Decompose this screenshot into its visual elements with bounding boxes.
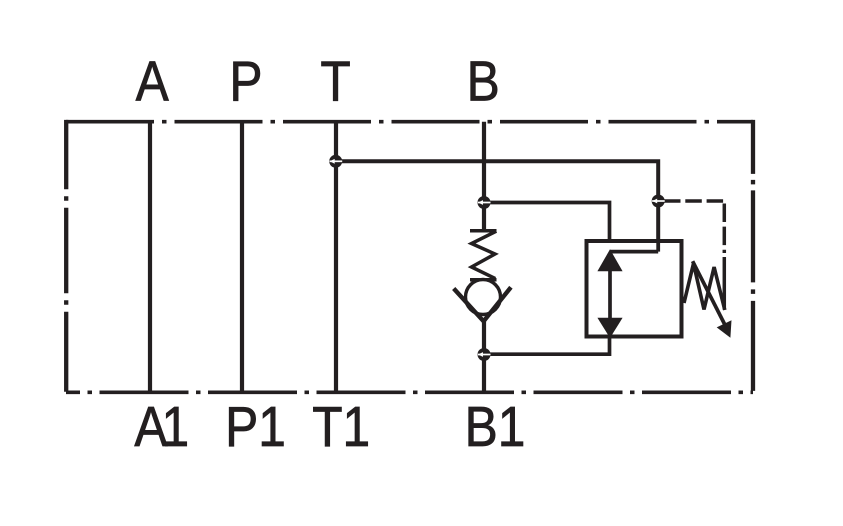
junction node top of compensator branch <box>652 195 665 208</box>
enclosure boundary (dash-dot subplate box) <box>66 120 753 392</box>
boundary top edge <box>66 120 753 124</box>
wire: compensator bottom exit to B node <box>484 335 610 355</box>
port line A-A1 <box>148 122 152 393</box>
svg-text:A1: A1 <box>134 396 186 459</box>
svg-text:B: B <box>467 51 500 114</box>
svg-text:T1: T1 <box>312 396 370 459</box>
svg-text:P1: P1 <box>225 396 286 459</box>
svg-text:T: T <box>320 51 350 114</box>
check valve spring zigzag <box>472 231 497 278</box>
pilot line (dashed) horizontal from node <box>664 199 726 203</box>
junction node on B line (upper) <box>478 196 491 209</box>
svg-text:B1: B1 <box>465 396 526 459</box>
port line P-P1 <box>240 122 244 393</box>
check valve ball <box>466 280 501 315</box>
boundary left edge <box>64 120 68 392</box>
pilot line (dashed) vertical drop <box>723 204 727 254</box>
adjustment arrow shaft (diagonal) <box>693 261 725 324</box>
check valve seat V <box>454 287 511 321</box>
pilot line solid tail into spring <box>723 257 727 310</box>
boundary right edge <box>751 120 755 392</box>
check valve spring bottom bar <box>470 278 497 282</box>
wire: B node to compensator top entry <box>484 203 610 244</box>
compensator arrow shaft <box>608 261 612 323</box>
compensator arrowhead up <box>597 249 622 271</box>
compensator arrowhead down <box>597 318 622 338</box>
compensator internal flow arrow: bent top line <box>610 241 658 252</box>
svg-text:P: P <box>229 51 262 114</box>
adjustment arrowhead <box>717 320 732 338</box>
port line B-B1 (broken around check valve) <box>482 122 486 393</box>
port line T-T1 <box>334 122 338 393</box>
junction node on T line <box>329 155 342 168</box>
boundary bottom edge <box>66 390 753 394</box>
junction node on B line (lower) <box>478 348 491 361</box>
valve body U1 (pressure compensator square) <box>587 241 682 337</box>
wire: T branch top run to right corner, down to node <box>336 161 658 253</box>
svg-text:A: A <box>136 51 170 114</box>
relief spring (adjustable) zigzag <box>684 264 725 311</box>
check valve V1: spring top bar <box>470 229 497 233</box>
